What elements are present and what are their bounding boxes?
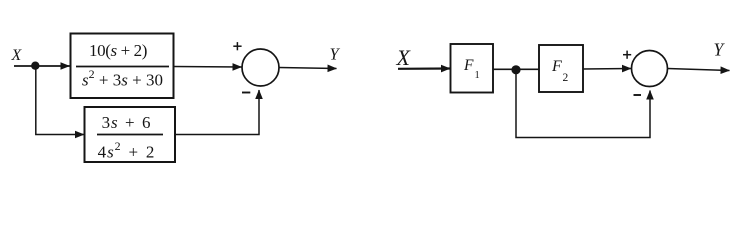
wire G1 to summing junction S1 (174, 66, 242, 69)
value label (3s+6)/(4s^2+2) inside G2 (97, 113, 163, 162)
wire S1 to output Y (279, 68, 337, 69)
svg-text:4s2 + 2: 4s2 + 2 (98, 139, 156, 162)
svg-text:F: F (551, 58, 562, 75)
svg-text:1: 1 (475, 70, 480, 81)
svg-text:Y: Y (330, 45, 341, 64)
block G1 (forward transfer function) (71, 34, 174, 99)
wire F2 to summing junction S2 (583, 68, 631, 71)
minus sign at S1 feedback input (242, 92, 250, 94)
svg-text:F: F (463, 57, 474, 74)
block F2 (539, 45, 583, 92)
summing junction S1 (242, 49, 279, 86)
wire X to block F1 (398, 67, 450, 70)
svg-text:Y: Y (714, 40, 726, 60)
wire S2 to output Y (668, 69, 730, 71)
value label 10(s+2) / (s^2+3s+30) inside G1 (76, 41, 169, 90)
wire pickoff feedback into S2 (516, 70, 650, 138)
svg-text:s2 + 3s + 30: s2 + 3s + 30 (82, 67, 163, 90)
plus sign at S2 input (623, 51, 631, 59)
svg-text:X: X (11, 47, 23, 64)
svg-text:10(s + 2): 10(s + 2) (89, 41, 147, 60)
wire pickoff down and into block G2 (36, 66, 84, 135)
wire G2 output back up into S1 (175, 90, 259, 135)
svg-text:X: X (396, 45, 412, 70)
summing junction S2 (632, 51, 668, 87)
block F1 (451, 44, 494, 93)
junction dot (right pickoff node) (511, 65, 520, 74)
minus sign at S2 feedback input (634, 94, 642, 96)
wire X to block G1 (14, 65, 70, 67)
plus sign at S1 input (233, 42, 241, 50)
svg-text:3s + 6: 3s + 6 (102, 113, 152, 132)
block G2 (feedback transfer function) (85, 107, 176, 162)
wire F1 to F2 (493, 68, 539, 70)
junction dot (left pickoff node) (31, 61, 39, 69)
svg-text:2: 2 (563, 72, 569, 84)
